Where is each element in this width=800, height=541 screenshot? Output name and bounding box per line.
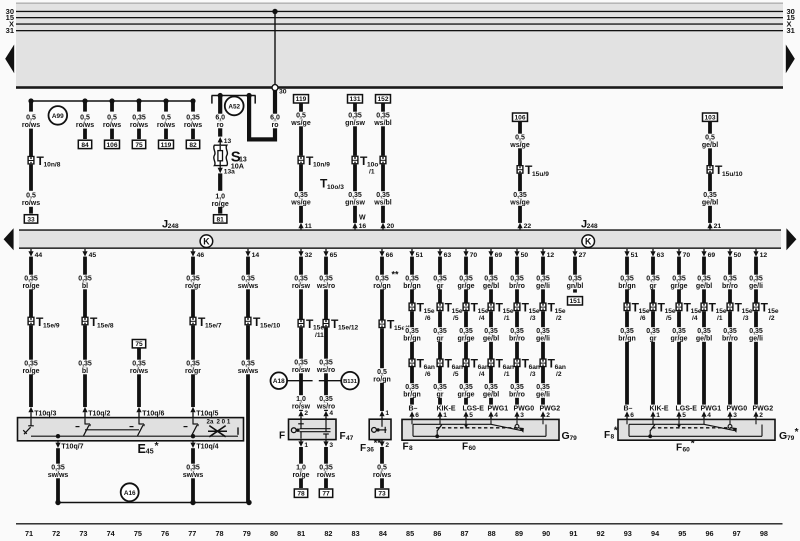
svg-text:ro/gr: ro/gr [185, 283, 201, 290]
svg-text:6: 6 [415, 412, 419, 419]
svg-text:70: 70 [683, 252, 691, 259]
svg-text:/2: /2 [556, 315, 562, 322]
svg-text:br/ro: br/ro [722, 335, 738, 342]
svg-text:5: 5 [469, 412, 473, 419]
svg-text:0,35: 0,35 [568, 276, 582, 283]
svg-text:0,35: 0,35 [376, 113, 390, 120]
svg-text:79: 79 [570, 435, 578, 442]
svg-text:10o: 10o [367, 161, 378, 168]
svg-text:91: 91 [569, 529, 577, 538]
svg-text:br/gn: br/gn [618, 283, 636, 290]
svg-text:51: 51 [416, 252, 424, 259]
svg-text:B131: B131 [343, 379, 358, 385]
svg-text:/6: /6 [425, 315, 431, 322]
svg-text:0,35: 0,35 [510, 384, 524, 391]
svg-text:ge/li: ge/li [536, 391, 550, 398]
svg-text:0,35: 0,35 [132, 361, 146, 368]
svg-text:88: 88 [488, 529, 496, 538]
svg-text:F: F [604, 430, 610, 441]
svg-text:0,35: 0,35 [78, 276, 92, 283]
svg-text:gr/ge: gr/ge [457, 391, 474, 398]
svg-text:131: 131 [349, 96, 360, 103]
svg-text:12: 12 [547, 252, 555, 259]
svg-text:0,5: 0,5 [26, 115, 36, 122]
svg-text:0,35: 0,35 [294, 192, 308, 199]
svg-text:151: 151 [569, 298, 580, 305]
svg-text:gr/ge: gr/ge [670, 335, 687, 342]
svg-text:0,35: 0,35 [186, 115, 200, 122]
svg-text:K: K [585, 236, 592, 246]
svg-text:gr: gr [650, 335, 657, 342]
svg-text:0,35: 0,35 [319, 360, 333, 367]
svg-text:gr: gr [437, 391, 444, 398]
svg-text:/5: /5 [453, 315, 459, 322]
svg-text:13: 13 [224, 138, 232, 145]
svg-text:/1: /1 [504, 371, 510, 378]
svg-text:/6: /6 [640, 315, 646, 322]
svg-text:75: 75 [134, 529, 142, 538]
svg-text:4: 4 [494, 412, 498, 419]
svg-text:F: F [676, 443, 682, 454]
svg-text:F: F [340, 431, 346, 442]
svg-text:119: 119 [296, 96, 307, 103]
svg-text:2: 2 [385, 442, 389, 449]
svg-text:14: 14 [252, 252, 260, 259]
svg-text:0,35: 0,35 [697, 328, 711, 335]
svg-text:87: 87 [460, 529, 468, 538]
svg-text:15e/9: 15e/9 [43, 322, 60, 329]
svg-text:32: 32 [305, 252, 313, 259]
svg-text:103: 103 [704, 115, 715, 122]
svg-text:65: 65 [330, 252, 338, 259]
svg-text:gr/ge: gr/ge [457, 283, 474, 290]
svg-text:10n/8: 10n/8 [44, 162, 61, 169]
svg-text:ro/gn: ro/gn [373, 283, 391, 290]
svg-text:ro/ws: ro/ws [130, 368, 148, 375]
svg-text:A16: A16 [124, 490, 136, 497]
svg-text:1: 1 [385, 410, 389, 417]
svg-text:gn/bl: gn/bl [567, 283, 584, 290]
svg-text:0,35: 0,35 [241, 276, 255, 283]
svg-text:4: 4 [329, 410, 333, 417]
svg-text:**: ** [392, 270, 400, 280]
svg-text:15e/12: 15e/12 [338, 325, 359, 332]
svg-text:1,0: 1,0 [296, 465, 306, 472]
svg-text:ge/li: ge/li [536, 283, 550, 290]
svg-text:3: 3 [733, 412, 737, 419]
svg-text:85: 85 [406, 529, 414, 538]
svg-text:gn/sw: gn/sw [345, 120, 365, 127]
svg-text:0,35: 0,35 [186, 465, 200, 472]
svg-text:A18: A18 [273, 378, 285, 385]
svg-text:0,35: 0,35 [405, 384, 419, 391]
svg-text:22: 22 [524, 223, 532, 230]
svg-text:0,35: 0,35 [319, 276, 333, 283]
svg-text:0,35: 0,35 [459, 276, 473, 283]
svg-text:/4: /4 [692, 315, 698, 322]
svg-text:1: 1 [443, 412, 447, 419]
svg-text:0,35: 0,35 [348, 192, 362, 199]
svg-text:0,35: 0,35 [672, 328, 686, 335]
svg-text:/4: /4 [479, 315, 485, 322]
svg-text:ge/li: ge/li [749, 335, 763, 342]
svg-text:12: 12 [760, 252, 768, 259]
svg-text:6: 6 [630, 412, 634, 419]
svg-text:A52: A52 [228, 103, 240, 110]
svg-text:0,35: 0,35 [749, 276, 763, 283]
svg-text:0,35: 0,35 [319, 396, 333, 403]
svg-text:248: 248 [168, 223, 179, 230]
svg-text:0,35: 0,35 [510, 328, 524, 335]
svg-text:81: 81 [217, 216, 225, 223]
svg-text:75: 75 [135, 341, 143, 348]
svg-text:F: F [403, 441, 409, 452]
svg-text:63: 63 [444, 252, 452, 259]
svg-text:77: 77 [188, 529, 196, 538]
svg-text:br/gn: br/gn [403, 335, 421, 342]
svg-text:79: 79 [243, 529, 251, 538]
svg-text:0,5: 0,5 [705, 135, 715, 142]
svg-text:248: 248 [587, 223, 598, 230]
svg-text:63: 63 [657, 252, 665, 259]
svg-text:ro/gn: ro/gn [373, 376, 391, 383]
svg-text:ro/sw: ro/sw [292, 367, 311, 374]
svg-text:0,5: 0,5 [377, 465, 387, 472]
svg-text:4: 4 [707, 412, 711, 419]
svg-text:0,35: 0,35 [697, 276, 711, 283]
svg-text:31: 31 [6, 26, 14, 35]
svg-text:0,35: 0,35 [620, 276, 634, 283]
svg-text:ge/bl: ge/bl [702, 142, 718, 149]
svg-text:*: * [614, 425, 618, 436]
svg-text:/6: /6 [425, 371, 431, 378]
svg-text:ws/ro: ws/ro [316, 283, 335, 290]
svg-text:47: 47 [346, 435, 354, 442]
svg-text:gr/ge: gr/ge [457, 335, 474, 342]
svg-text:6,0: 6,0 [270, 115, 280, 122]
svg-text:/2: /2 [556, 371, 562, 378]
svg-text:0,5: 0,5 [161, 115, 171, 122]
svg-text:G: G [779, 430, 787, 442]
svg-text:21: 21 [714, 223, 722, 230]
svg-text:0,35: 0,35 [646, 328, 660, 335]
svg-text:K: K [203, 236, 210, 246]
svg-text:T10q/7: T10q/7 [61, 443, 83, 450]
svg-text:0,35: 0,35 [536, 328, 550, 335]
svg-text:15e/10: 15e/10 [260, 322, 281, 329]
svg-text:ws/bl: ws/bl [373, 120, 392, 127]
svg-text:/3: /3 [743, 315, 749, 322]
svg-text:66: 66 [386, 252, 394, 259]
svg-text:0,35: 0,35 [723, 328, 737, 335]
svg-text:A99: A99 [52, 113, 64, 120]
svg-text:ge/bl: ge/bl [696, 335, 712, 342]
svg-text:0,35: 0,35 [78, 361, 92, 368]
svg-text:98: 98 [760, 529, 768, 538]
svg-text:0,35: 0,35 [241, 361, 255, 368]
svg-text:ro/gr: ro/gr [185, 368, 201, 375]
svg-text:2: 2 [759, 412, 763, 419]
svg-text:15e/7: 15e/7 [205, 322, 222, 329]
svg-text:3: 3 [520, 412, 524, 419]
svg-text:73: 73 [79, 529, 87, 538]
svg-text:86: 86 [433, 529, 441, 538]
svg-text:0,35: 0,35 [646, 276, 660, 283]
svg-text:89: 89 [515, 529, 523, 538]
svg-text:94: 94 [651, 529, 660, 538]
svg-text:**: ** [374, 438, 382, 448]
svg-text:/4: /4 [479, 371, 485, 378]
svg-text:78: 78 [215, 529, 223, 538]
svg-text:br/gn: br/gn [403, 283, 421, 290]
svg-text:T10q/3: T10q/3 [34, 410, 56, 417]
svg-text:ge/bl: ge/bl [483, 391, 499, 398]
svg-text:LGS-E: LGS-E [676, 406, 698, 413]
svg-text:0,35: 0,35 [51, 465, 65, 472]
svg-text:80: 80 [270, 529, 278, 538]
svg-text:gn/sw: gn/sw [345, 199, 365, 206]
svg-text:gr: gr [437, 335, 444, 342]
svg-text:T10q/2: T10q/2 [88, 410, 110, 417]
svg-text:ws/ge: ws/ge [509, 142, 530, 149]
svg-text:0,5: 0,5 [296, 113, 306, 120]
svg-text:93: 93 [624, 529, 632, 538]
svg-text:0,35: 0,35 [294, 360, 308, 367]
svg-text:2 0 1: 2 0 1 [217, 418, 231, 425]
svg-text:/5: /5 [666, 315, 672, 322]
svg-text:bl: bl [82, 283, 88, 290]
svg-text:0,35: 0,35 [620, 328, 634, 335]
svg-text:0,5: 0,5 [107, 115, 117, 122]
svg-text:0,35: 0,35 [186, 361, 200, 368]
svg-text:95: 95 [678, 529, 686, 538]
svg-text:0,35: 0,35 [536, 384, 550, 391]
svg-text:0,35: 0,35 [703, 192, 717, 199]
svg-text:ro/ws: ro/ws [373, 472, 391, 479]
svg-text:30: 30 [279, 89, 287, 96]
svg-text:LGS-E: LGS-E [463, 406, 485, 413]
svg-text:10o/3: 10o/3 [327, 184, 344, 191]
svg-text:T10q/5: T10q/5 [196, 410, 218, 417]
svg-text:ro/ws: ro/ws [76, 122, 94, 129]
svg-text:/2: /2 [769, 315, 775, 322]
svg-text:/1: /1 [717, 315, 723, 322]
svg-text:gr/ge: gr/ge [670, 283, 687, 290]
svg-text:72: 72 [52, 529, 60, 538]
svg-text:152: 152 [377, 96, 388, 103]
svg-text:ge/bl: ge/bl [483, 335, 499, 342]
svg-text:79: 79 [787, 435, 795, 442]
svg-text:br/ro: br/ro [509, 283, 525, 290]
svg-text:50: 50 [521, 252, 529, 259]
svg-text:96: 96 [705, 529, 713, 538]
svg-text:/3: /3 [530, 315, 536, 322]
svg-text:97: 97 [733, 529, 741, 538]
svg-text:2: 2 [546, 412, 550, 419]
svg-text:0,5: 0,5 [26, 193, 36, 200]
svg-text:83: 83 [352, 529, 360, 538]
svg-text:F: F [462, 441, 468, 452]
svg-text:ro/ge: ro/ge [292, 472, 309, 479]
svg-text:br/gn: br/gn [618, 335, 636, 342]
svg-text:13a: 13a [224, 169, 235, 176]
svg-text:ge/bl: ge/bl [696, 283, 712, 290]
svg-text:0,35: 0,35 [433, 276, 447, 283]
svg-text:0,35: 0,35 [723, 276, 737, 283]
svg-text:0,35: 0,35 [348, 113, 362, 120]
svg-text:69: 69 [708, 252, 716, 259]
svg-text:71: 71 [25, 529, 33, 538]
svg-text:45: 45 [89, 252, 97, 259]
svg-text:bl: bl [82, 368, 88, 375]
svg-text:20: 20 [387, 223, 395, 230]
svg-text:ro/ws: ro/ws [130, 122, 148, 129]
svg-text:27: 27 [579, 252, 587, 259]
svg-text:ws/bl: ws/bl [373, 199, 392, 206]
svg-text:5: 5 [682, 412, 686, 419]
svg-text:0,35: 0,35 [186, 276, 200, 283]
svg-text:10n/9: 10n/9 [313, 161, 330, 168]
svg-text:0,35: 0,35 [24, 361, 38, 368]
svg-text:16: 16 [359, 223, 367, 230]
svg-text:82: 82 [189, 142, 197, 149]
svg-text:ro/ge: ro/ge [22, 283, 39, 290]
svg-text:84: 84 [379, 529, 388, 538]
svg-text:sw/ws: sw/ws [48, 472, 69, 479]
svg-text:0,35: 0,35 [24, 276, 38, 283]
svg-text:0,35: 0,35 [376, 192, 390, 199]
svg-text:50: 50 [734, 252, 742, 259]
svg-text:br/gn: br/gn [403, 391, 421, 398]
svg-text:br/ro: br/ro [509, 335, 525, 342]
svg-text:73: 73 [378, 491, 386, 498]
svg-text:15u/10: 15u/10 [722, 171, 743, 178]
svg-text:74: 74 [107, 529, 116, 538]
svg-text:1,0: 1,0 [296, 396, 306, 403]
svg-text:/5: /5 [453, 371, 459, 378]
svg-text:ro/sw: ro/sw [292, 283, 311, 290]
svg-text:ro/ws: ro/ws [157, 122, 175, 129]
svg-text:0,35: 0,35 [405, 328, 419, 335]
svg-text:ge/bl: ge/bl [483, 283, 499, 290]
svg-text:ro/ws: ro/ws [103, 122, 121, 129]
svg-text:0,35: 0,35 [433, 384, 447, 391]
svg-text:/11: /11 [315, 332, 324, 339]
svg-text:0,35: 0,35 [510, 276, 524, 283]
svg-text:gr: gr [650, 283, 657, 290]
svg-text:60: 60 [469, 445, 477, 452]
svg-text:0,35: 0,35 [484, 328, 498, 335]
svg-text:92: 92 [597, 529, 605, 538]
svg-text:gr: gr [437, 283, 444, 290]
svg-text:90: 90 [542, 529, 550, 538]
svg-text:0,5: 0,5 [377, 369, 387, 376]
svg-text:84: 84 [81, 142, 89, 149]
svg-text:W: W [359, 215, 366, 222]
svg-text:E: E [138, 442, 146, 456]
svg-text:82: 82 [324, 529, 332, 538]
svg-text:0,35: 0,35 [433, 328, 447, 335]
svg-text:sw/ws: sw/ws [238, 283, 259, 290]
svg-text:15u/9: 15u/9 [532, 171, 549, 178]
svg-text:br/ro: br/ro [722, 283, 738, 290]
svg-text:ro: ro [272, 122, 279, 129]
svg-text:44: 44 [35, 252, 43, 259]
svg-text:T10q/4: T10q/4 [196, 443, 218, 450]
svg-text:0,35: 0,35 [672, 276, 686, 283]
svg-text:ws/ge: ws/ge [290, 199, 311, 206]
svg-text:0,35: 0,35 [749, 328, 763, 335]
svg-text:F: F [279, 431, 285, 442]
svg-text:ro/ws: ro/ws [22, 122, 40, 129]
svg-text:106: 106 [106, 142, 117, 149]
svg-text:2a: 2a [207, 418, 214, 425]
svg-text:G: G [562, 430, 570, 442]
svg-text:75: 75 [135, 142, 143, 149]
svg-text:0,35: 0,35 [405, 276, 419, 283]
svg-text:0,35: 0,35 [536, 276, 550, 283]
svg-text:77: 77 [322, 491, 330, 498]
svg-text:106: 106 [514, 115, 525, 122]
svg-text:T10q/6: T10q/6 [142, 410, 164, 417]
svg-text:46: 46 [197, 252, 205, 259]
svg-text:ro/ge: ro/ge [22, 368, 39, 375]
svg-text:1: 1 [656, 412, 660, 419]
svg-text:/1: /1 [504, 315, 510, 322]
svg-text:70: 70 [470, 252, 478, 259]
svg-text:15e/8: 15e/8 [97, 322, 114, 329]
svg-text:ge/li: ge/li [749, 283, 763, 290]
svg-text:*: * [691, 438, 695, 449]
svg-text:F: F [360, 443, 366, 454]
svg-text:0,35: 0,35 [375, 276, 389, 283]
svg-text:60: 60 [683, 446, 691, 453]
svg-text:ws/ge: ws/ge [290, 120, 311, 127]
svg-text:1,0: 1,0 [215, 194, 225, 201]
svg-text:0,5: 0,5 [80, 115, 90, 122]
svg-text:51: 51 [631, 252, 639, 259]
svg-text:119: 119 [161, 142, 172, 149]
svg-text:sw/ws: sw/ws [183, 472, 204, 479]
svg-text:/3: /3 [530, 371, 536, 378]
svg-text:69: 69 [495, 252, 503, 259]
svg-text:11: 11 [305, 223, 312, 230]
svg-text:ro/ws: ro/ws [317, 472, 335, 479]
svg-text:0,35: 0,35 [459, 328, 473, 335]
svg-text:*: * [795, 427, 799, 438]
svg-text:/1: /1 [369, 169, 375, 176]
svg-text:8: 8 [409, 445, 413, 452]
svg-text:78: 78 [297, 491, 305, 498]
svg-text:0,35: 0,35 [294, 276, 308, 283]
svg-text:0,35: 0,35 [319, 465, 333, 472]
svg-text:sw/ws: sw/ws [238, 368, 259, 375]
svg-text:33: 33 [27, 216, 35, 223]
svg-text:ge/bl: ge/bl [702, 199, 718, 206]
svg-text:ws/ro: ws/ro [316, 367, 335, 374]
svg-text:0,35: 0,35 [484, 384, 498, 391]
svg-text:1: 1 [304, 442, 308, 449]
svg-text:br/ro: br/ro [509, 391, 525, 398]
svg-text:ro: ro [217, 122, 224, 129]
svg-text:6,0: 6,0 [215, 115, 225, 122]
svg-text:0,35: 0,35 [132, 115, 146, 122]
svg-text:31: 31 [787, 26, 795, 35]
svg-text:ws/ge: ws/ge [509, 199, 530, 206]
svg-text:ro/ws: ro/ws [22, 200, 40, 207]
svg-text:3: 3 [329, 442, 333, 449]
svg-text:ge/li: ge/li [536, 335, 550, 342]
